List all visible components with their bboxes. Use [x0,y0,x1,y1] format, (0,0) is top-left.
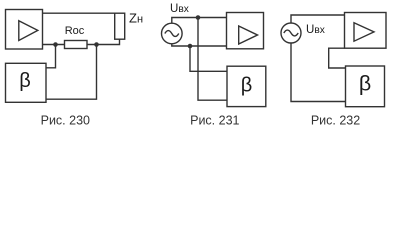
svg-text:β: β [241,75,253,97]
svg-text:Рис. 230: Рис. 230 [41,114,90,128]
svg-text:β: β [359,72,371,96]
svg-text:Uвх: Uвх [170,3,189,15]
svg-text:Roc: Roc [65,25,85,37]
svg-text:β: β [19,70,31,92]
svg-text:Рис. 231: Рис. 231 [190,114,239,128]
svg-text:Рис. 232: Рис. 232 [311,114,360,128]
svg-text:Uвх: Uвх [306,24,325,36]
svg-text:Zн: Zн [129,11,143,26]
